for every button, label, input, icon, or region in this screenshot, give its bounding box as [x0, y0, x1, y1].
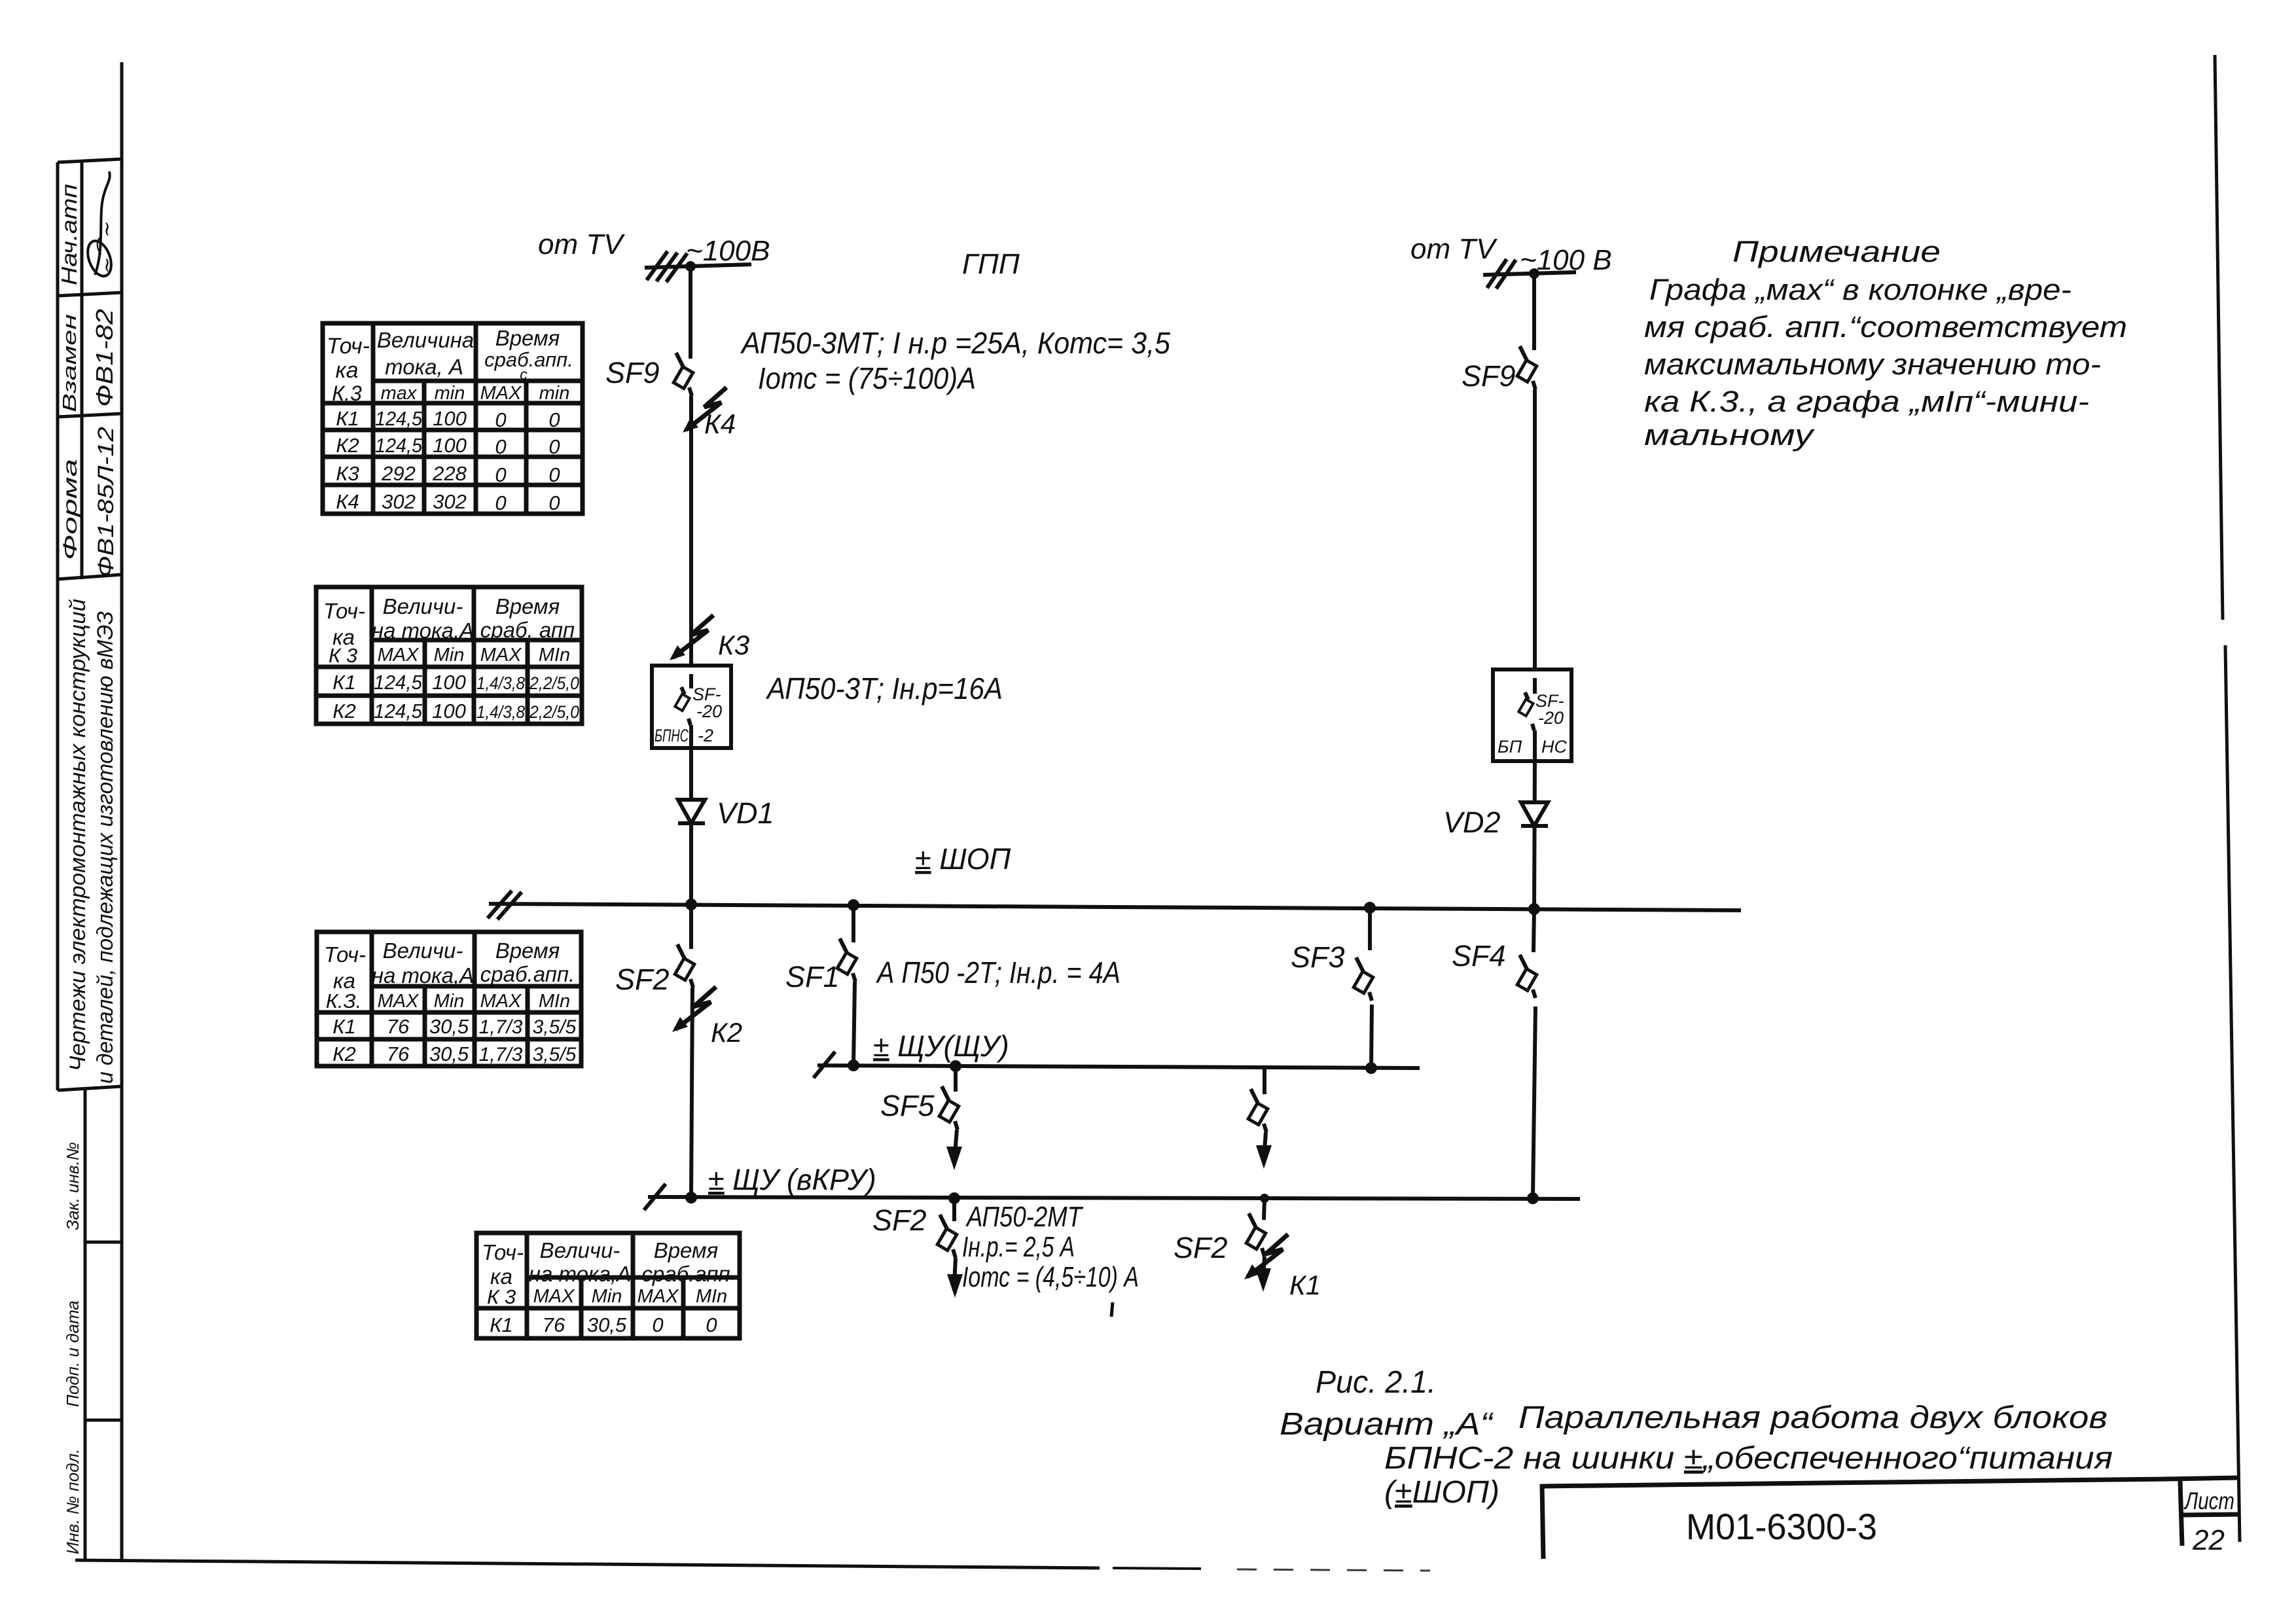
svg-text:22: 22 — [2192, 1524, 2225, 1556]
svg-text:К2: К2 — [332, 700, 356, 722]
svg-text:MAX: MAX — [533, 1286, 576, 1307]
svg-text:30,5: 30,5 — [587, 1313, 627, 1336]
svg-text:SF4: SF4 — [1452, 939, 1506, 972]
svg-text:Форма: Форма — [60, 459, 81, 560]
svg-text:К 3: К 3 — [329, 644, 357, 667]
svg-text:БП: БП — [1498, 737, 1522, 757]
svg-text:сраб.апп.: сраб.апп. — [480, 962, 575, 986]
svg-text:1,7/3: 1,7/3 — [479, 1044, 523, 1065]
svg-text:0: 0 — [548, 408, 560, 431]
svg-text:124,5: 124,5 — [375, 434, 423, 457]
wire: left feeder from SF9 down to BPNS-2 block — [689, 396, 693, 666]
svg-text:К2: К2 — [332, 1043, 356, 1065]
svg-text:Чертежи электромонтажных конст: Чертежи электромонтажных конструкций — [65, 599, 90, 1071]
svg-text:Min: Min — [592, 1286, 622, 1307]
svg-text:К4: К4 — [704, 408, 736, 439]
wire: SF2 down to ±ЩУ(вКРУ) bus — [691, 988, 692, 1198]
svg-text:Рис. 2.1.: Рис. 2.1. — [1316, 1365, 1436, 1400]
svg-text:мя сраб. апп.“соответствует: мя сраб. апп.“соответствует — [1644, 310, 2127, 344]
svg-text:Примечание: Примечание — [1732, 235, 1941, 268]
junction: VD1 branch on ±ШОП — [685, 899, 697, 910]
svg-text:Величи-: Величи- — [383, 938, 463, 963]
junction: SF1 on ±ЩУ(ЩУ) — [848, 1060, 859, 1071]
svg-text:MAX: MAX — [378, 991, 420, 1012]
diode VD2 — [1521, 802, 1548, 826]
block БПНС-2 (left) with internal breaker SF-20 — [652, 666, 731, 748]
bus ±ЩУ(ЩУ) wire — [814, 1052, 1420, 1078]
svg-text:SF3: SF3 — [1291, 940, 1345, 974]
svg-text:К2: К2 — [336, 434, 359, 457]
wire: SF4 down to ±ЩУ(вКРУ) — [1533, 1007, 1535, 1198]
svg-text:302: 302 — [433, 490, 467, 513]
wire: BP NS to diode VD2 — [1534, 761, 1535, 911]
svg-text:Вариант „А“: Вариант „А“ — [1280, 1407, 1494, 1442]
svg-text:Величина: Величина — [377, 328, 474, 352]
wire: right feeder from supply bus to SF9 — [1532, 274, 1536, 350]
svg-text:SF5: SF5 — [880, 1089, 935, 1122]
svg-text:76: 76 — [387, 1043, 410, 1065]
svg-text:ка: ка — [336, 358, 359, 383]
svg-text:3,5/5: 3,5/5 — [533, 1016, 577, 1038]
diode VD1 — [678, 800, 705, 823]
svg-text:Min: Min — [434, 991, 465, 1012]
fault point K3 with lightning arrow — [670, 615, 713, 660]
breaker SF2 (left drop) — [675, 944, 694, 988]
svg-text:-2: -2 — [698, 726, 713, 745]
svg-text:БПНС: БПНС — [655, 726, 689, 745]
svg-text:К.3: К.3 — [332, 382, 362, 405]
svg-text:Точ-: Точ- — [323, 599, 365, 623]
svg-text:MIn: MIn — [696, 1286, 727, 1307]
svg-text:Время: Время — [495, 594, 560, 618]
svg-text:Величи-: Величи- — [383, 594, 463, 618]
svg-text:тока, А: тока, А — [385, 355, 463, 379]
breaker SF3 — [1354, 957, 1373, 1001]
wire: down from ±ШОП — [689, 904, 693, 949]
svg-text:от TV: от TV — [1410, 233, 1498, 265]
svg-text:К 3: К 3 — [487, 1285, 516, 1308]
svg-text:SF1: SF1 — [785, 960, 840, 993]
junction: АП50-2МТ feeder on ±ЩУ(вКРУ) — [948, 1192, 960, 1204]
svg-text:MAX: MAX — [480, 645, 523, 666]
svg-text:Величи-: Величи- — [540, 1238, 620, 1262]
svg-text:VD2: VD2 — [1443, 806, 1501, 839]
breaker (unnamed, right drop from ЩУ bus) — [1248, 1089, 1268, 1132]
svg-text:К1: К1 — [332, 671, 356, 694]
svg-text:min: min — [539, 383, 570, 404]
junction: VD2/SF4 branch on ±ШОП — [1528, 903, 1540, 915]
svg-text:сраб. апп: сраб. апп — [480, 618, 575, 642]
svg-text:М01-6300-3: М01-6300-3 — [1686, 1506, 1877, 1547]
node: ~100V supply bus from TV (right) — [1483, 259, 1576, 289]
svg-text:ФВ1-85Л-12: ФВ1-85Л-12 — [94, 427, 118, 577]
svg-text:100: 100 — [432, 700, 466, 722]
signature squiggle in stamp — [83, 171, 115, 279]
svg-text:min: min — [435, 383, 465, 404]
svg-text:SF9: SF9 — [1462, 359, 1516, 393]
svg-text:и деталей, подлежащих изготовл: и деталей, подлежащих изготовлению вМЭЗ — [93, 611, 118, 1084]
wire: left feeder from supply bus to SF9 — [689, 266, 692, 359]
wire: SF3 down from ±ШОП — [1368, 908, 1372, 950]
svg-text:2,2/5,0: 2,2/5,0 — [529, 673, 579, 693]
breaker SF4 — [1517, 955, 1537, 998]
svg-text:БПНС-2 на шинки ±„обеспеченног: БПНС-2 на шинки ±„обеспеченного“питания — [1384, 1441, 2113, 1476]
svg-text:Подп. и дата: Подп. и дата — [63, 1300, 82, 1407]
svg-text:0: 0 — [548, 491, 560, 514]
svg-text:АП50-3Т; Iн.р=16А: АП50-3Т; Iн.р=16А — [765, 671, 1003, 705]
svg-text:максимальному значению то-: максимальному значению то- — [1644, 348, 2101, 381]
svg-text:К2: К2 — [711, 1017, 742, 1048]
svg-text:0: 0 — [495, 463, 506, 486]
svg-text:± ШОП: ± ШОП — [915, 842, 1011, 876]
svg-text:124,5: 124,5 — [374, 671, 423, 694]
svg-text:Зак. инв.№: Зак. инв.№ — [63, 1142, 82, 1230]
svg-text:1,4/3,8: 1,4/3,8 — [476, 673, 525, 693]
svg-text:MIn: MIn — [539, 991, 570, 1012]
breaker SF9 (right) — [1517, 346, 1537, 389]
breaker SF9 (left) — [673, 353, 693, 396]
svg-text:с: с — [520, 366, 528, 383]
svg-text:Лист: Лист — [2183, 1488, 2234, 1514]
svg-text:мальному: мальному — [1644, 418, 1815, 452]
junction: SF5 on ±ЩУ(ЩУ) — [950, 1060, 961, 1072]
svg-text:(±ШОП): (±ШОП) — [1384, 1475, 1499, 1510]
breaker SF5 — [939, 1086, 959, 1130]
svg-text:76: 76 — [543, 1313, 565, 1336]
svg-text:MAX: MAX — [480, 383, 523, 404]
svg-text:К3: К3 — [718, 630, 749, 660]
breaker SF2 (АП50-2МТ feeder) — [937, 1215, 957, 1258]
svg-text:1,4/3,8: 1,4/3,8 — [476, 702, 525, 722]
svg-text:30,5: 30,5 — [429, 1043, 469, 1065]
junction: right feeder to supply bus — [1529, 268, 1539, 279]
svg-text:100: 100 — [432, 671, 466, 694]
svg-text:К1: К1 — [332, 1015, 356, 1038]
wire: down from ±ШОП — [852, 905, 855, 942]
svg-text:SF2: SF2 — [615, 963, 670, 996]
svg-text:MAX: MAX — [378, 645, 420, 666]
svg-text:124,5: 124,5 — [375, 407, 423, 430]
svg-text:на тока,А: на тока,А — [372, 963, 474, 988]
svg-text:MIn: MIn — [539, 645, 570, 666]
svg-text:Точ-: Точ- — [482, 1240, 524, 1264]
svg-text:100: 100 — [433, 407, 467, 430]
svg-text:сраб.апп.: сраб.апп. — [484, 348, 573, 371]
svg-text:сраб.апп: сраб.апп — [641, 1262, 730, 1286]
fault point K1 with lightning arrow — [1244, 1234, 1288, 1279]
junction: K1 branch on ±ЩУ(вКРУ) — [1260, 1194, 1269, 1203]
junction: left feeder to supply bus — [685, 261, 696, 272]
svg-text:~100 В: ~100 В — [1520, 244, 1612, 276]
svg-text:Параллельная работа двух блоко: Параллельная работа двух блоков — [1518, 1400, 2108, 1435]
svg-text:302: 302 — [382, 490, 416, 513]
svg-text:Инв. № подл.: Инв. № подл. — [63, 1449, 82, 1554]
svg-text:Время: Время — [654, 1238, 719, 1262]
svg-text:SF2: SF2 — [1174, 1231, 1228, 1264]
junction: SF1 branch on ±ШОП — [848, 899, 859, 911]
svg-text:-20: -20 — [1538, 708, 1564, 728]
wire/arrow: outgoing down — [1255, 1257, 1271, 1292]
svg-text:VD1: VD1 — [717, 796, 774, 830]
breaker SF2 (K1 branch) — [1246, 1213, 1266, 1257]
svg-text:К3: К3 — [336, 462, 359, 485]
svg-text:± ЩУ (вКРУ): ± ЩУ (вКРУ) — [708, 1163, 876, 1196]
svg-text:3,5/5: 3,5/5 — [533, 1044, 577, 1065]
fault point K4 with lightning arrow — [683, 387, 726, 433]
svg-text:0: 0 — [652, 1313, 663, 1336]
breaker SF1 — [837, 938, 857, 982]
svg-text:292: 292 — [381, 462, 416, 485]
svg-text:228: 228 — [432, 462, 467, 485]
svg-text:124,5: 124,5 — [374, 700, 423, 722]
svg-text:на тока,А: на тока,А — [372, 618, 474, 643]
junction: SF3 branch on ±ШОП — [1364, 902, 1376, 914]
svg-text:± ЩУ(ЩУ): ± ЩУ(ЩУ) — [873, 1029, 1009, 1063]
node: ~100V supply bus from TV (left) — [645, 251, 751, 282]
junction: SF4 on ±ЩУ(вКРУ) — [1527, 1192, 1539, 1204]
svg-text:К4: К4 — [336, 490, 359, 513]
svg-text:ка К.3., а графа „мIп“-мини-: ка К.3., а графа „мIп“-мини- — [1644, 385, 2089, 418]
svg-text:MAX: MAX — [480, 991, 523, 1012]
svg-text:0: 0 — [495, 491, 506, 514]
wire: down from ±ЩУ(вКРУ) — [952, 1198, 956, 1221]
svg-text:Время: Время — [495, 326, 560, 350]
svg-text:2,2/5,0: 2,2/5,0 — [529, 702, 579, 722]
wire/arrow: SF5 outgoing down — [946, 1130, 962, 1170]
svg-text:АП50-2МТ: АП50-2МТ — [965, 1201, 1084, 1233]
wire: SF3 down to ±ЩУ(ЩУ) — [1371, 1005, 1372, 1068]
wire: SF4 down from ±ШОП — [1534, 909, 1534, 952]
svg-text:0: 0 — [548, 435, 560, 458]
bus ±ЩУ(вКРУ) wire — [644, 1184, 1580, 1210]
svg-text:К1: К1 — [490, 1313, 513, 1336]
bus ±ШОП wire — [488, 891, 1741, 919]
svg-text:Точ-: Точ- — [327, 334, 370, 359]
svg-text:А П50 -2Т; Iн.р. = 4А: А П50 -2Т; Iн.р. = 4А — [875, 955, 1121, 990]
svg-text:MAX: MAX — [637, 1286, 680, 1307]
svg-text:0: 0 — [548, 463, 560, 486]
svg-text:Iотс = (75÷100)А: Iотс = (75÷100)А — [758, 361, 976, 395]
svg-text:от TV: от TV — [538, 228, 625, 260]
svg-text:ГПП: ГПП — [962, 248, 1020, 280]
tick mark below — [1111, 1302, 1113, 1317]
svg-text:Нач.атп: Нач.атп — [57, 184, 81, 285]
svg-text:~100В: ~100В — [686, 235, 770, 267]
svg-text:Графа „мах“ в колонке „вре-: Графа „мах“ в колонке „вре- — [1649, 273, 2072, 306]
wire: down from ±ЩУ(вКРУ) — [1264, 1198, 1265, 1220]
svg-text:Min: Min — [434, 645, 465, 666]
svg-text:0: 0 — [495, 408, 506, 431]
svg-text:-20: -20 — [696, 702, 722, 721]
svg-text:76: 76 — [387, 1015, 410, 1038]
svg-text:на тока,А: на тока,А — [529, 1262, 631, 1286]
junction: SF3 on ±ЩУ(ЩУ) — [1365, 1062, 1377, 1074]
svg-text:100: 100 — [433, 434, 467, 457]
wire/arrow: outgoing down — [1256, 1132, 1272, 1169]
svg-text:АП50-3МТ; I н.р =25А, Котс= 3,: АП50-3МТ; I н.р =25А, Котс= 3,5 — [740, 326, 1170, 360]
svg-text:К1: К1 — [1289, 1270, 1321, 1300]
svg-text:0: 0 — [706, 1313, 717, 1336]
wire: BPNS-2 to diode VD1 — [689, 748, 693, 904]
svg-text:К1: К1 — [336, 407, 359, 430]
svg-text:30,5: 30,5 — [429, 1015, 469, 1038]
svg-text:К.З.: К.З. — [326, 990, 362, 1012]
wire: down from ±ЩУ(ЩУ) — [954, 1066, 958, 1092]
wire: SF1 down to ±ЩУ(ЩУ) bus — [853, 982, 855, 1065]
svg-text:Iотс = (4,5÷10) А: Iотс = (4,5÷10) А — [962, 1261, 1139, 1293]
svg-text:Время: Время — [495, 938, 560, 963]
svg-text:0: 0 — [495, 435, 506, 458]
svg-text:Точ-: Точ- — [324, 942, 366, 967]
wire: down from ±ЩУ(ЩУ) — [1263, 1068, 1266, 1094]
block БП НС (right) with internal breaker SF-20 — [1493, 669, 1571, 761]
svg-text:SF2: SF2 — [872, 1204, 927, 1237]
svg-text:Взамен: Взамен — [60, 314, 81, 412]
fault point K2 with lightning arrow — [672, 987, 716, 1032]
wire: right feeder from SF9 down to BP NS block — [1533, 389, 1537, 669]
svg-text:max: max — [381, 383, 418, 404]
wire/arrow: outgoing down — [947, 1258, 963, 1298]
svg-text:ФВ1-82: ФВ1-82 — [91, 309, 118, 407]
svg-text:1,7/3: 1,7/3 — [479, 1016, 523, 1038]
svg-text:SF9: SF9 — [605, 356, 660, 389]
svg-text:Iн.р.= 2,5 А: Iн.р.= 2,5 А — [962, 1231, 1075, 1263]
svg-text:НС: НС — [1541, 737, 1567, 757]
junction: SF2/K2 branch on ±ЩУ(вКРУ) — [685, 1192, 697, 1204]
